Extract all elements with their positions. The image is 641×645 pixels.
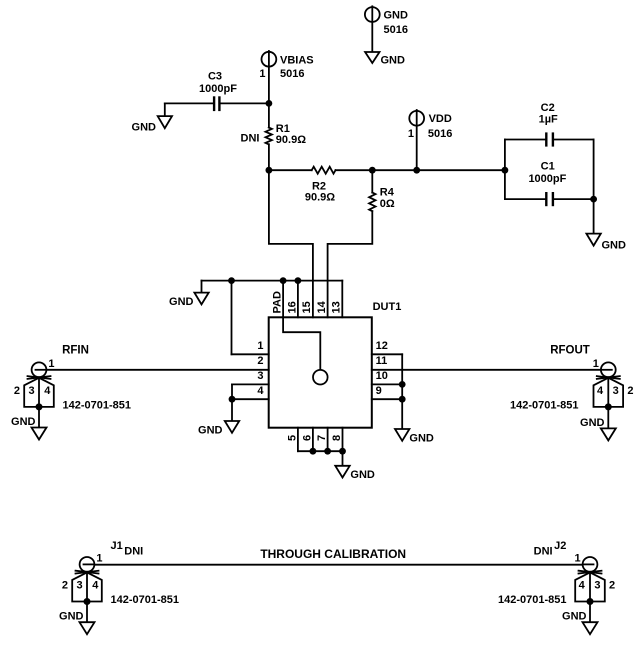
svg-text:5016: 5016	[428, 128, 452, 140]
connector J1 142-0701-851 (DNI)	[62, 540, 179, 606]
svg-text:1000pF: 1000pF	[199, 83, 237, 95]
svg-text:90.9Ω: 90.9Ω	[305, 192, 335, 204]
wire rail to ground	[201, 281, 203, 293]
ground (pins 12,10,9)	[395, 429, 434, 445]
svg-text:R2: R2	[312, 180, 326, 192]
svg-text:3: 3	[613, 385, 619, 397]
svg-text:3: 3	[594, 579, 600, 591]
svg-text:2: 2	[62, 579, 68, 591]
svg-text:RFOUT: RFOUT	[550, 344, 590, 356]
svg-text:1: 1	[593, 358, 599, 370]
svg-text:1µF: 1µF	[539, 114, 558, 126]
ground (pins 3-4)	[198, 421, 239, 437]
svg-text:0Ω: 0Ω	[380, 198, 395, 210]
wire pins 12,10,9 to ground	[401, 354, 403, 429]
svg-text:R4: R4	[380, 187, 395, 199]
svg-text:GND: GND	[59, 611, 84, 623]
svg-text:5016: 5016	[280, 68, 304, 80]
svg-text:2: 2	[14, 385, 20, 397]
svg-text:6: 6	[301, 435, 313, 441]
svg-text:2: 2	[627, 385, 633, 397]
node rail/PAD	[280, 277, 287, 284]
pin 5	[286, 428, 298, 452]
wire top GND rail	[202, 280, 343, 282]
svg-text:C1: C1	[541, 161, 555, 173]
connector J2 142-0701-851 (DNI)	[498, 540, 615, 606]
pin 11 (RFOUT line)	[372, 355, 609, 370]
pin 12	[372, 340, 402, 354]
svg-text:142-0701-851: 142-0701-851	[63, 400, 132, 412]
ground (C3)	[132, 116, 172, 133]
pin 4	[232, 385, 269, 399]
resistor R2	[305, 167, 336, 204]
svg-text:8: 8	[331, 435, 343, 441]
svg-text:13: 13	[331, 301, 343, 313]
node C1 right junction	[590, 196, 597, 203]
pin 13	[331, 281, 343, 318]
svg-text:GND: GND	[562, 611, 587, 623]
op-amp DUT1 body	[269, 301, 402, 428]
pin 16	[286, 281, 298, 318]
wire pin3-pin4 to ground	[231, 384, 233, 421]
node rail/pin16	[295, 277, 302, 284]
svg-text:GND: GND	[350, 469, 375, 481]
wire bottom pin bus	[298, 450, 343, 452]
svg-text:C2: C2	[541, 102, 555, 114]
svg-text:9: 9	[376, 385, 382, 397]
svg-text:3: 3	[77, 579, 83, 591]
node R4 tap	[369, 167, 376, 174]
svg-text:GND: GND	[580, 417, 605, 429]
svg-text:1: 1	[257, 340, 263, 352]
node C1/C2 left junction	[502, 167, 509, 174]
node pin9 junction	[399, 396, 406, 403]
terminal VDD 5016	[408, 110, 453, 170]
svg-text:4: 4	[579, 579, 586, 591]
node VBIAS/C3 junction	[266, 100, 273, 107]
svg-text:C3: C3	[208, 71, 222, 83]
svg-text:VDD: VDD	[429, 113, 452, 125]
capacitor C3	[165, 71, 269, 112]
PAD internal wire	[283, 317, 320, 370]
svg-text:DNI: DNI	[241, 133, 260, 145]
svg-text:1000pF: 1000pF	[528, 173, 566, 185]
wire rail left	[269, 169, 312, 171]
svg-text:4: 4	[44, 385, 51, 397]
ground (pins 5-8)	[335, 466, 375, 481]
wire cap block left side	[504, 140, 506, 200]
svg-text:4: 4	[257, 385, 264, 397]
wire R1 junction to pin 15	[269, 170, 313, 317]
svg-text:PAD: PAD	[272, 291, 284, 313]
node pin6	[310, 448, 317, 455]
wire cap block right side	[593, 140, 595, 200]
connector RFOUT 142-0701-851	[510, 344, 633, 411]
svg-text:GND: GND	[169, 296, 194, 308]
svg-text:GND: GND	[381, 55, 406, 67]
svg-text:5016: 5016	[384, 24, 408, 36]
ground (RFIN)	[11, 416, 46, 440]
ground (J1)	[59, 611, 94, 635]
resistor R4	[369, 170, 395, 211]
svg-text:VBIAS: VBIAS	[280, 54, 314, 66]
svg-text:3: 3	[29, 385, 35, 397]
svg-text:142-0701-851: 142-0701-851	[111, 594, 180, 606]
ground (RFOUT)	[580, 417, 616, 441]
svg-text:GND: GND	[409, 433, 434, 445]
svg-text:GND: GND	[132, 122, 157, 134]
wire R1 bottom to rail	[268, 144, 270, 170]
node pin8	[339, 448, 346, 455]
svg-text:142-0701-851: 142-0701-851	[498, 594, 567, 606]
svg-text:7: 7	[316, 435, 328, 441]
wire RFIN shield to ground	[38, 407, 40, 428]
node VDD junction	[413, 167, 420, 174]
pin 2 (RFIN line)	[35, 355, 269, 370]
wire RFOUT shield to ground	[607, 407, 609, 429]
svg-text:3: 3	[257, 370, 263, 382]
svg-text:5: 5	[286, 435, 298, 441]
svg-text:J2: J2	[554, 540, 566, 552]
svg-text:DUT1: DUT1	[373, 301, 402, 313]
ground (J2)	[562, 611, 597, 635]
connector RFIN J? 142-0701-851	[14, 344, 131, 411]
capacitor C1	[505, 161, 594, 207]
resistor R1 (DNI)	[241, 123, 307, 146]
svg-text:GND: GND	[198, 425, 223, 437]
pin 6	[301, 428, 313, 452]
pin PAD	[272, 281, 284, 318]
svg-text:RFIN: RFIN	[62, 344, 89, 356]
node pin10 junction	[399, 381, 406, 388]
svg-text:90.9Ω: 90.9Ω	[276, 134, 306, 146]
ground (C1/C2)	[586, 234, 626, 252]
node R1/R2 junction	[266, 167, 273, 174]
wire C3 to ground	[164, 103, 166, 116]
svg-text:J1: J1	[111, 540, 123, 552]
terminal GND 5016 (top)	[365, 6, 408, 52]
wire rail to pin 1	[231, 281, 233, 355]
svg-text:11: 11	[376, 355, 388, 367]
node pin7	[324, 448, 331, 455]
svg-text:1: 1	[259, 68, 265, 80]
svg-text:1: 1	[96, 553, 102, 565]
wire J1 shield to ground	[86, 602, 88, 623]
terminal VBIAS 5016	[259, 51, 313, 128]
svg-text:1: 1	[408, 128, 414, 140]
svg-text:1: 1	[48, 358, 54, 370]
svg-text:1: 1	[574, 553, 580, 565]
svg-text:2: 2	[609, 579, 615, 591]
wire J2 shield to ground	[589, 602, 591, 623]
wire to ground	[593, 199, 595, 234]
svg-text:GND: GND	[384, 10, 409, 22]
svg-text:14: 14	[316, 300, 328, 313]
wire THROUGH CALIBRATION	[84, 547, 593, 565]
svg-text:THROUGH CALIBRATION: THROUGH CALIBRATION	[260, 547, 406, 561]
svg-text:4: 4	[92, 579, 99, 591]
svg-text:142-0701-851: 142-0701-851	[510, 400, 579, 412]
svg-text:2: 2	[257, 355, 263, 367]
svg-text:GND: GND	[602, 239, 627, 251]
svg-text:4: 4	[597, 385, 604, 397]
ground (below top terminal)	[365, 52, 405, 67]
svg-text:16: 16	[286, 301, 298, 313]
pin 1	[232, 340, 269, 354]
node rail/pin1 wire	[228, 277, 235, 284]
svg-text:DNI: DNI	[534, 546, 553, 558]
capacitor C2	[505, 102, 594, 147]
PAD center circle	[313, 370, 328, 385]
svg-text:12: 12	[376, 340, 388, 352]
svg-text:10: 10	[376, 370, 388, 382]
pin 7	[316, 428, 328, 452]
node pin4 junction	[229, 396, 236, 403]
wire bus to ground	[342, 451, 344, 466]
pin 3	[232, 370, 269, 384]
pin 10	[372, 370, 402, 384]
ground (rail)	[169, 293, 209, 308]
wire R4 to pin 14	[328, 211, 373, 317]
wire rail right	[336, 169, 505, 171]
pin 8	[331, 428, 343, 452]
pin 9	[372, 385, 402, 399]
svg-text:15: 15	[301, 301, 313, 313]
svg-text:DNI: DNI	[124, 546, 143, 558]
svg-text:GND: GND	[11, 416, 36, 428]
